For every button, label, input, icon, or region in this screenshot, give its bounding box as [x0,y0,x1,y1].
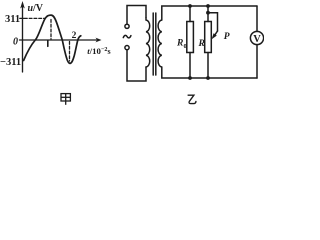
transformer primary coil L1 [146,18,150,68]
svg-text:P: P [224,32,230,42]
dashed line 311 level [24,17,45,19]
wire R0 branch top [189,6,191,22]
junction dot R0 top [188,4,192,8]
wire R0 branch bottom [189,53,191,79]
voltmeter branch wire bottom [256,45,258,78]
wiper arrow [212,31,218,39]
junction dot R bottom [206,76,210,80]
svg-text:311: 311 [5,14,20,25]
svg-text:2: 2 [72,31,77,41]
terminal top [125,24,129,28]
junction dot wiper [206,11,210,15]
transformer secondary coil L2 [158,20,162,67]
label ~ AC source [123,35,131,37]
svg-text:R: R [198,39,205,49]
tick 1 on t-axis [47,41,49,47]
y-axis u [20,1,25,72]
sine curve u(t) [24,15,81,63]
junction dot R top [206,4,210,8]
svg-text:−311: −311 [0,57,21,68]
svg-text:V: V [253,34,261,45]
x-axis t [20,38,102,43]
caption 甲 (drawn) [61,94,70,105]
svg-text:0: 0 [13,37,18,48]
resistor R0 [187,22,194,53]
dashed line peak vertical [50,20,52,40]
voltmeter V [250,31,263,44]
transformer core [153,13,156,75]
terminal bottom [125,46,129,50]
svg-text:R: R [176,38,183,48]
wire primary bottom [127,50,146,81]
wire R branch top [207,6,209,22]
junction dot R0 bottom [188,76,192,80]
caption 乙 (drawn) [188,95,196,103]
resistor R [205,22,212,53]
dashed line trough vertical [69,42,71,62]
svg-text:/V: /V [32,3,44,14]
wire R branch bottom [207,53,209,79]
voltmeter branch wire top [256,6,258,31]
svg-text:0: 0 [184,43,187,50]
wire primary top [127,6,146,25]
wire wiper P [208,13,218,31]
wire secondary top [162,6,257,20]
wire secondary bottom [162,67,257,78]
tick 311 on y-axis [20,17,24,19]
svg-text:t/10−2s: t/10−2s [87,46,110,56]
